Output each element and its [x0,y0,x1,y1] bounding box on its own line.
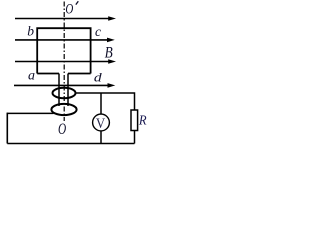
voltmeter stem top [100,93,102,114]
svg-text:a: a [28,69,35,84]
slip ring lower [51,104,76,115]
svg-text:c: c [95,24,101,39]
voltmeter circle [93,114,110,131]
wire from lower ring to left [7,112,53,114]
coil lead wire right [67,74,69,107]
field arrow B4 [14,83,115,88]
left wire vertical [6,113,8,144]
rotation axis O'O (dash-dot) [63,2,65,122]
slip ring upper [53,88,76,98]
wire from upper ring to right [76,93,135,110]
svg-text:B: B [105,45,113,62]
coil lead wire left [58,74,60,107]
svg-text:d: d [94,70,103,84]
field arrow B1 [15,16,116,21]
svg-text:O: O [58,120,66,137]
voltmeter stem bottom [100,131,102,144]
field arrow B2 [15,38,115,43]
svg-text:O: O [65,0,73,17]
resistor R box [131,110,138,131]
field arrow B3 [15,59,116,64]
bottom wire [7,143,134,145]
svg-text:V: V [96,116,105,132]
svg-text:R: R [138,112,147,128]
svg-text:b: b [27,23,34,38]
coil loop abcd [37,28,90,73]
wire below resistor [134,131,136,144]
